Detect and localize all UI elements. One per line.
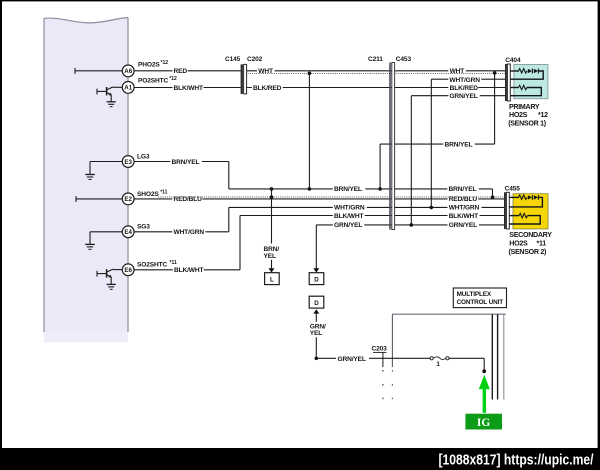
svg-text:BLK/WHT: BLK/WHT	[449, 213, 478, 220]
svg-text:GRN/YEL: GRN/YEL	[334, 222, 362, 229]
label PHO2S *12	[138, 60, 168, 69]
multiplex unit boundary (gray)	[392, 314, 505, 399]
svg-text:D: D	[314, 276, 319, 283]
svg-text:YEL: YEL	[310, 330, 322, 337]
svg-text:C453: C453	[396, 56, 412, 63]
svg-text:PRIMARY: PRIMARY	[509, 103, 540, 111]
wire E6 BLK/WHT	[134, 216, 240, 275]
svg-text:BLK/WHT: BLK/WHT	[174, 267, 203, 274]
wire WHT/GRN bus	[229, 203, 504, 211]
IG box (green)	[465, 414, 502, 430]
junction GRN/YEL node	[315, 357, 319, 361]
svg-text:(SENSOR 2): (SENSOR 2)	[509, 248, 548, 256]
svg-text:BRN/YEL: BRN/YEL	[334, 186, 362, 193]
svg-text:YEL: YEL	[264, 253, 276, 260]
svg-text:C202: C202	[247, 56, 263, 63]
connector box D (upper)	[309, 273, 324, 285]
wire GRN/YEL bus	[316, 221, 504, 229]
svg-text:MULTIPLEX: MULTIPLEX	[457, 291, 492, 298]
svg-text:C203: C203	[372, 346, 388, 353]
wire BRN/YEL corner into C455	[491, 189, 495, 199]
svg-text:L: L	[270, 276, 274, 283]
wire vertical x494 down to BRN/YEL branch	[494, 73, 496, 144]
svg-text:E2: E2	[124, 196, 132, 203]
junction x309 on BRN/YEL bus	[308, 187, 312, 191]
svg-text:GRN/YEL: GRN/YEL	[449, 93, 477, 100]
svg-text:*12: *12	[538, 111, 548, 119]
svg-text:SECONDARY: SECONDARY	[509, 231, 552, 239]
connector C455	[504, 186, 520, 229]
svg-text:*12: *12	[169, 76, 177, 82]
svg-text:BLK/RED: BLK/RED	[253, 85, 282, 92]
svg-text:C455: C455	[505, 186, 521, 193]
ground (E6 driver emitter)	[107, 284, 116, 289]
svg-text:IG: IG	[477, 417, 490, 429]
ECM/PCM control unit block (lavender)	[44, 18, 128, 343]
svg-text:1: 1	[436, 361, 440, 368]
transistor Q (SO2SHTC driver)	[97, 269, 123, 284]
wire drop to connector L: BRN/YEL	[264, 189, 280, 273]
svg-text:D: D	[314, 300, 319, 307]
svg-text:WHT/GRN: WHT/GRN	[334, 205, 365, 212]
junction on dotted line (x494)	[493, 71, 497, 75]
svg-text:PO2SHTC: PO2SHTC	[138, 78, 168, 85]
svg-text:SO2SHTC: SO2SHTC	[137, 262, 167, 269]
heater element (bottom)	[510, 85, 541, 95]
wire BRN/YEL branch to primary sensor row	[380, 140, 495, 148]
svg-text:SG3: SG3	[137, 224, 150, 231]
wire switch to IG node	[449, 358, 484, 371]
multiplex control unit label box	[453, 288, 506, 308]
svg-text:C145: C145	[225, 56, 241, 63]
svg-text:LG3: LG3	[137, 153, 150, 160]
wire GRN/YEL riser to primary sensor	[411, 92, 505, 225]
svg-text:*11: *11	[537, 239, 547, 247]
svg-text:C404: C404	[505, 57, 521, 64]
svg-text:CONTROL UNIT: CONTROL UNIT	[457, 299, 504, 306]
wire vertical x380 from BRN/YEL bus up	[379, 144, 381, 189]
connector C203	[372, 346, 388, 400]
label SECONDARY HO2S *11 (SENSOR 2)	[509, 231, 553, 256]
transistor Q (PO2SHTC driver)	[97, 87, 123, 102]
node A6 internal lead	[75, 68, 123, 74]
primary HO2S sensor body	[514, 65, 548, 99]
wire BLK/RED C202 to C404	[247, 84, 506, 92]
svg-text:WHT: WHT	[450, 68, 465, 75]
junction on dotted line (x309)	[308, 72, 312, 76]
ground at E4	[85, 232, 123, 250]
wire E2 RED/BLU solid	[134, 195, 504, 203]
svg-text:BRN/YEL: BRN/YEL	[449, 186, 477, 193]
junction x271 on dotted	[270, 195, 274, 199]
svg-text:BLK/WHT: BLK/WHT	[334, 213, 363, 220]
svg-text:GRN/YEL: GRN/YEL	[449, 222, 477, 229]
pin A1	[122, 82, 134, 94]
wire BRN/YEL bus	[229, 185, 493, 193]
secondary HO2S sensor body	[513, 194, 548, 229]
pin E2	[122, 193, 134, 205]
node E2 internal lead	[76, 196, 123, 202]
svg-text:SHO2S: SHO2S	[137, 191, 159, 198]
svg-text:HO2S: HO2S	[509, 111, 528, 119]
svg-text:WHT/GRN: WHT/GRN	[174, 229, 205, 236]
wire vertical x309 down to BRN/YEL bus	[308, 73, 310, 189]
svg-text:E3: E3	[124, 159, 132, 166]
switch/coupler 1	[430, 357, 449, 369]
wire RED/BLU dotted companion	[158, 196, 504, 198]
pin A6	[122, 65, 134, 77]
wire E3 BRN/YEL	[134, 158, 229, 189]
label SHO2S *11	[137, 189, 168, 198]
svg-text:BRN/YEL: BRN/YEL	[445, 141, 473, 148]
heater element (bottom)	[509, 213, 540, 224]
label SO2SHTC *11	[137, 260, 177, 269]
connector C404	[505, 57, 521, 101]
connector C145/C202	[225, 56, 263, 94]
svg-text:*12: *12	[161, 60, 169, 66]
svg-text:(SENSOR 1): (SENSOR 1)	[508, 119, 547, 127]
svg-text:RED: RED	[174, 68, 188, 75]
svg-text:BLK/WHT: BLK/WHT	[174, 85, 203, 92]
ground (A1 driver emitter)	[107, 102, 116, 107]
svg-text:A1: A1	[124, 85, 132, 92]
wire A1 BLK/WHT to C145	[134, 84, 241, 92]
svg-text:PHO2S: PHO2S	[138, 62, 160, 69]
junction x431 on WHT/GRN bus	[430, 206, 434, 210]
connector box D (lower)	[309, 296, 324, 308]
wire dotted companion (to other circuit)	[247, 72, 506, 74]
wire BLK/WHT bus	[240, 212, 504, 220]
wire WHT/GRN riser to primary sensor	[431, 76, 505, 208]
junction IG node	[482, 369, 486, 373]
multiplex internal bus lines	[492, 314, 504, 399]
wire A6 RED to C145	[134, 67, 241, 75]
svg-text:GRN/YEL: GRN/YEL	[338, 356, 366, 363]
wire GRN/YEL to C203 and switch	[316, 354, 430, 363]
wire WHT (solid) C202 to C404	[247, 67, 506, 75]
wire E4 WHT/GRN	[134, 207, 229, 236]
svg-text:[1088x817] https://upic.me/: [1088x817] https://upic.me/	[439, 452, 595, 469]
wire arrow up into D (GRN/YEL from IG feed)	[310, 309, 326, 358]
svg-text:*11: *11	[160, 189, 167, 195]
svg-text:BRN/YEL: BRN/YEL	[172, 159, 200, 166]
svg-text:WHT/GRN: WHT/GRN	[449, 77, 480, 84]
svg-text:WHT/GRN: WHT/GRN	[449, 205, 480, 212]
sensor element (top, with diodes)	[509, 195, 542, 207]
connector box L	[265, 273, 280, 285]
svg-text:E6: E6	[124, 267, 132, 274]
label PO2SHTC *12	[138, 76, 177, 85]
junction x380 on BRN/YEL bus	[378, 187, 382, 191]
svg-text:HO2S: HO2S	[509, 239, 528, 247]
svg-text:C211: C211	[368, 56, 383, 63]
pin E3	[122, 156, 134, 168]
junction x411 on GRN/YEL bus	[410, 223, 414, 227]
svg-text:BLK/RED: BLK/RED	[450, 85, 479, 92]
ground at E3	[85, 162, 123, 180]
pin E6	[122, 264, 134, 276]
svg-text:*11: *11	[170, 260, 177, 266]
svg-text:WHT: WHT	[258, 68, 273, 75]
label PRIMARY HO2S *12 (SENSOR 1)	[508, 103, 548, 128]
pin E4	[122, 226, 134, 238]
sensor element (top, with diodes)	[510, 69, 543, 80]
junction x271 on BRN/YEL bus	[270, 187, 274, 191]
svg-text:E4: E4	[124, 229, 132, 236]
IG arrow (green)	[479, 375, 490, 413]
svg-text:A6: A6	[124, 68, 132, 75]
wire drop to connector D	[313, 225, 319, 273]
